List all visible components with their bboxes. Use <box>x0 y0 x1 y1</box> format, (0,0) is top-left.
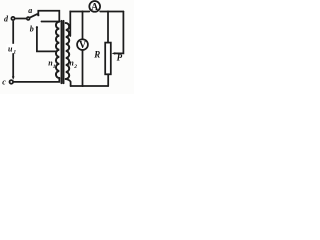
svg-text:1: 1 <box>13 50 16 56</box>
switch lever <box>29 14 37 18</box>
svg-text:c: c <box>2 77 6 86</box>
core line right <box>63 21 65 83</box>
resistor bottom lead <box>107 74 109 86</box>
voltmeter bottom lead <box>82 50 84 86</box>
secondary bottom lead <box>66 79 71 86</box>
node at stub end <box>41 21 42 22</box>
svg-text:P: P <box>117 53 123 63</box>
junction at R branch <box>107 11 109 13</box>
bottom wire <box>71 85 109 87</box>
voltmeter top lead <box>82 12 84 40</box>
junction at bottom wire <box>82 85 84 87</box>
svg-text:A: A <box>91 2 99 13</box>
wire A to right branch <box>100 11 123 13</box>
core line left <box>61 21 63 83</box>
junction at secondary top <box>69 11 71 13</box>
terminal c <box>10 80 14 84</box>
wire from contact b to primary tap <box>37 27 56 51</box>
wire from contact a to transformer top <box>38 11 59 22</box>
wire c to primary bottom <box>13 78 59 82</box>
svg-text:1: 1 <box>53 64 56 70</box>
wire d to switch pivot <box>15 18 27 20</box>
svg-text:b: b <box>30 25 34 34</box>
secondary top lead <box>70 12 89 37</box>
voltage arrow u1 <box>12 22 14 78</box>
ammeter A <box>89 1 100 12</box>
terminal d <box>11 17 14 20</box>
stub wire at primary top <box>42 21 60 23</box>
svg-text:u: u <box>8 44 13 53</box>
resistor top lead <box>107 12 109 43</box>
contact a <box>37 14 39 16</box>
voltmeter branch junction <box>82 11 84 13</box>
secondary winding n2 <box>66 23 70 79</box>
contact b <box>36 26 38 28</box>
primary winding n1 <box>56 22 59 78</box>
label u1 <box>7 44 17 53</box>
svg-text:R: R <box>93 50 100 60</box>
voltmeter V <box>77 39 88 50</box>
switch pivot <box>27 17 30 20</box>
wiper branch <box>115 12 124 54</box>
resistor R body <box>105 43 111 75</box>
wiper arrowhead <box>112 52 116 55</box>
svg-text:a: a <box>28 6 32 15</box>
svg-text:2: 2 <box>73 64 77 70</box>
